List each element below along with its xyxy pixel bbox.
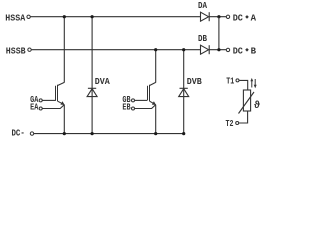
svg-text:DC: DC <box>233 45 243 56</box>
wire IGBT A collector <box>63 17 65 83</box>
svg-text:DC: DC <box>233 12 243 23</box>
junction DC- / IGBT A emitter <box>63 132 66 135</box>
svg-text:A: A <box>251 12 257 23</box>
wire DC+A to DC+B tie <box>218 17 220 50</box>
junction HSSA / DVA <box>91 15 94 18</box>
svg-text:DB: DB <box>198 33 207 44</box>
junction HSSA / IGBT A collector <box>63 15 66 18</box>
wire EB emitter sense <box>135 105 156 109</box>
transistor IGBT B <box>148 82 157 105</box>
svg-text:EB: EB <box>122 102 130 113</box>
terminal T2 <box>236 122 239 125</box>
terminal EA <box>39 107 42 110</box>
svg-text:EA: EA <box>30 102 38 113</box>
wire EA emitter sense <box>42 105 64 109</box>
wire GB gate <box>135 99 148 101</box>
terminal DC+B <box>226 48 229 51</box>
junction DC- / DVB <box>182 132 185 135</box>
junction HSSB / IGBT B collector <box>154 48 157 51</box>
wire DVB cathode <box>183 50 185 134</box>
diode DVA <box>87 88 97 96</box>
svg-text:DC-: DC- <box>12 127 25 138</box>
wire HSSA rail <box>31 16 201 18</box>
thermistor temperature rise arrow <box>250 78 253 88</box>
wire DB cathode to DC+B <box>209 49 226 51</box>
diode DB <box>201 45 210 54</box>
svg-text:HSSB: HSSB <box>6 45 26 56</box>
transistor IGBT A <box>56 82 65 105</box>
junction HSSB / DVB <box>182 48 185 51</box>
wire thermistor to T2 <box>239 111 248 123</box>
svg-text:HSSA: HSSA <box>5 12 25 23</box>
terminal GB <box>132 99 135 102</box>
svg-text:T2: T2 <box>226 118 234 129</box>
svg-text:DVA: DVA <box>95 76 110 87</box>
wire IGBT B emitter <box>155 105 157 134</box>
junction DC- / IGBT B emitter <box>154 132 157 135</box>
junction DC+A node <box>217 15 220 18</box>
wire IGBT A emitter <box>63 105 65 134</box>
terminal EB <box>132 107 135 110</box>
label DC+B <box>233 45 257 56</box>
wire DC- rail <box>34 133 185 135</box>
wire T1 to thermistor <box>239 80 248 90</box>
wire IGBT B collector <box>155 50 157 83</box>
wire DA cathode to DC+A <box>209 16 226 18</box>
svg-text:DVB: DVB <box>187 76 202 87</box>
svg-text:T1: T1 <box>226 76 234 87</box>
svg-text:ϑ: ϑ <box>254 100 260 112</box>
thermistor resistance fall arrow <box>254 79 257 88</box>
terminal GA <box>39 99 42 102</box>
wire GA gate <box>42 99 56 101</box>
svg-text:DA: DA <box>198 0 207 11</box>
diode DVB <box>179 88 189 96</box>
terminal DC- <box>30 132 33 135</box>
wire HSSB rail <box>31 49 200 51</box>
terminal HSSB <box>28 48 31 51</box>
label DC+A <box>233 12 257 23</box>
terminal DC+A <box>226 15 229 18</box>
junction DC+B node <box>217 48 220 51</box>
wire DVA cathode <box>91 17 93 134</box>
terminal T1 <box>236 79 239 82</box>
thermistor body <box>239 90 255 114</box>
terminal HSSA <box>27 15 30 18</box>
junction DC- / DVA <box>91 132 94 135</box>
diode DA <box>201 12 210 21</box>
svg-text:B: B <box>251 45 257 56</box>
